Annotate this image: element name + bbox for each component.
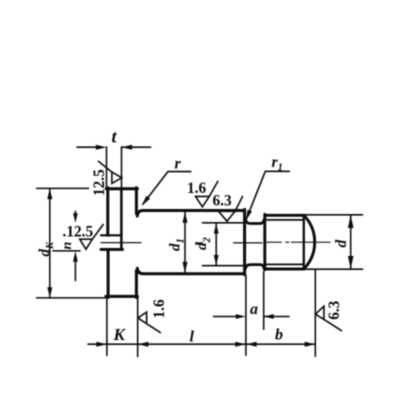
shank outline with fillet r — [137, 209, 244, 274]
svg-text:1.6: 1.6 — [151, 299, 168, 318]
svg-text:12.5: 12.5 — [91, 169, 108, 196]
ball end spherical arc — [304, 215, 315, 269]
dimension d1 — [184, 212, 186, 273]
svg-text:n: n — [60, 242, 75, 250]
bottom extension lines — [107, 270, 315, 357]
svg-text:a: a — [250, 301, 258, 318]
thread root lines — [267, 220, 304, 265]
svg-text:.12.5: .12.5 — [63, 224, 94, 241]
dimension d — [302, 215, 363, 269]
dk arrows — [47, 189, 52, 298]
threaded end collar — [265, 214, 304, 269]
svg-text:K: K — [113, 325, 127, 344]
neck d2 with fillets r1 — [245, 219, 264, 269]
roughness 1.6 bottom-left on K extension — [138, 312, 160, 333]
svg-text:l: l — [190, 329, 195, 346]
dimension n — [53, 211, 80, 280]
svg-text:6.3: 6.3 — [213, 193, 232, 210]
dimension K and l and b line — [88, 343, 315, 345]
svg-text:1.6: 1.6 — [187, 180, 206, 197]
head outline — [106, 188, 137, 298]
slot bottom line (depth t) — [120, 188, 123, 249]
svg-text:b: b — [275, 326, 283, 343]
dimension d2 — [203, 223, 245, 266]
svg-text:6.3: 6.3 — [326, 300, 343, 319]
t arrows — [96, 145, 132, 150]
roughness 1.6 on shank — [196, 181, 218, 206]
leader r1 with arrow — [246, 171, 289, 219]
roughness 6.3 on d2 extension — [219, 197, 243, 222]
slot upper flank — [101, 234, 121, 236]
svg-text:r: r — [175, 156, 182, 173]
n arrows — [73, 213, 78, 261]
dimension dk — [37, 188, 106, 298]
b arrows — [246, 342, 315, 347]
l arrows — [235, 342, 246, 347]
roughness 12.5 on slot flank — [80, 225, 104, 250]
roughness 6.3 bottom-right on b extension — [315, 306, 341, 331]
ball end tangent line — [303, 215, 305, 269]
leader r with arrow — [143, 172, 191, 205]
svg-text:d: d — [333, 240, 350, 248]
shank end face — [243, 209, 246, 274]
slot lower flank — [101, 248, 123, 251]
dimension t — [77, 147, 151, 188]
dimension a — [214, 316, 290, 318]
roughness 12.5 top-left (slot bottom surface) — [98, 161, 121, 183]
K arrows — [96, 342, 148, 347]
centerline axis — [101, 241, 330, 244]
